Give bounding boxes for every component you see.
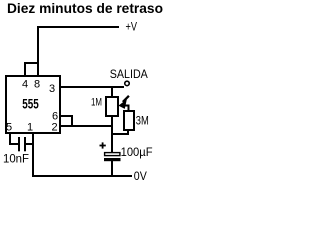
wire pin6 stub <box>61 115 73 117</box>
wire pin3 output <box>61 86 124 88</box>
potentiometer P1 1M body <box>106 97 118 116</box>
wire pin3 to potentiometer top <box>111 86 113 97</box>
svg-text:1: 1 <box>27 122 33 134</box>
wire capacitor C2 to 0V rail <box>111 161 113 176</box>
svg-text:10nF: 10nF <box>3 151 29 165</box>
wire pin8 to +V rail <box>37 26 39 76</box>
svg-text:8: 8 <box>34 79 40 91</box>
resistor R1 3M body <box>124 111 134 130</box>
wire pin4 vertical <box>24 62 26 76</box>
potentiometer wiper arrow <box>118 96 129 109</box>
svg-text:3M: 3M <box>136 113 149 127</box>
wire +V rail <box>37 26 119 28</box>
svg-text:100µF: 100µF <box>121 146 153 159</box>
wire resistor R1 bottom lead <box>127 130 129 135</box>
wire pin1 to 0V rail <box>32 134 34 176</box>
svg-text:2: 2 <box>51 122 57 134</box>
svg-text:1M: 1M <box>91 97 102 109</box>
wire pin4 notch horizontal <box>24 62 39 64</box>
capacitor C2 100uF positive plate <box>105 153 120 156</box>
IC U1 555 body <box>6 76 60 133</box>
terminal SALIDA <box>125 81 130 86</box>
svg-text:5: 5 <box>6 122 12 134</box>
wire 0V rail <box>32 175 132 177</box>
svg-text:SALIDA: SALIDA <box>110 67 148 81</box>
wire pin5 to capacitor C1 <box>9 143 19 145</box>
svg-text:555: 555 <box>22 97 39 112</box>
wire pin6 down <box>71 115 73 127</box>
wire pot bottom / node to capacitor C2 <box>111 116 113 153</box>
wire resistor bottom to node <box>112 133 129 135</box>
capacitor C1 10nF right plate <box>24 137 26 151</box>
svg-text:Diez minutos de retraso: Diez minutos de retraso <box>7 1 163 16</box>
wire pin5 down <box>9 134 11 145</box>
svg-text:3: 3 <box>49 83 55 95</box>
capacitor C2 100uF negative plate <box>104 158 121 161</box>
svg-text:4: 4 <box>22 79 28 91</box>
wire capacitor C1 to pin1 lead <box>25 143 33 145</box>
wire pin2 to node <box>61 125 113 127</box>
polarity plus sign <box>100 142 106 148</box>
svg-text:+V: +V <box>126 22 138 34</box>
svg-text:0V: 0V <box>134 170 147 183</box>
wire wiper to resistor R1 top <box>128 105 130 111</box>
capacitor C1 10nF left plate <box>18 137 20 151</box>
